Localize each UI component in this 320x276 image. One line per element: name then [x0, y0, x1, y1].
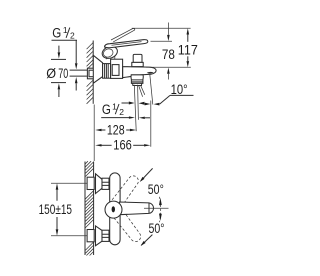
water stream lines — [139, 86, 145, 97]
extension line for 166 (spout tip) — [150, 74, 153, 147]
svg-text:78: 78 — [162, 46, 175, 62]
escutcheon lower (top view) — [96, 226, 103, 246]
svg-text:G: G — [52, 26, 61, 41]
svg-text:2: 2 — [70, 31, 75, 41]
svg-text:G: G — [102, 102, 111, 117]
wall (top view, bottom drawing) — [85, 161, 94, 255]
lever centerline — [144, 207, 169, 209]
swing arc with arrows — [159, 197, 162, 222]
dashed lever swung down — [114, 211, 143, 244]
spout outlet / aerator — [131, 75, 143, 86]
small arrows at spout tip line — [122, 102, 135, 105]
G1/2 leader arrow down — [75, 40, 78, 69]
union fitting upper (top view) — [87, 177, 94, 189]
extension line lower connection — [51, 235, 93, 237]
50 degree label upper — [140, 168, 164, 196]
escutcheon (side view) — [93, 55, 102, 83]
svg-text:70: 70 — [58, 65, 68, 81]
dimension 117 — [178, 28, 198, 67]
union fitting lower (top view) — [87, 230, 94, 242]
wall (side view, top drawing) — [87, 41, 94, 104]
union nut — [103, 64, 111, 79]
dashed lever swung up — [112, 174, 141, 207]
cartridge dome — [105, 201, 122, 218]
diverter knob — [132, 54, 143, 66]
valve body block — [111, 59, 123, 78]
svg-text:2: 2 — [119, 107, 124, 117]
svg-text:50°: 50° — [148, 181, 164, 197]
lever handle (top view) — [120, 202, 154, 215]
spout axis extension lines — [134, 85, 138, 131]
spout arm — [123, 67, 156, 78]
dimension 78 — [162, 23, 175, 80]
10 degree leader — [139, 81, 194, 106]
svg-text:50°: 50° — [149, 220, 165, 236]
escutcheon upper (top view) — [96, 174, 103, 194]
extension line C (body top datum) — [146, 66, 191, 68]
supply pipe — [70, 70, 88, 76]
union fitting in wall — [87, 68, 95, 79]
lever raised (phantom lines) — [111, 28, 135, 41]
G 1/2 label (middle) — [102, 101, 124, 117]
dimension 128 — [95, 122, 136, 138]
wall extension line down — [93, 105, 95, 162]
mixer body capsule (top view) — [110, 173, 120, 245]
extension line A (raised lever height) — [132, 27, 191, 29]
svg-text:150±15: 150±15 — [39, 201, 73, 217]
extension line upper connection — [51, 182, 93, 184]
dimension 166 — [95, 137, 150, 153]
svg-text:10°: 10° — [171, 81, 188, 97]
svg-text:128: 128 — [107, 122, 125, 138]
union nut lower (top view) — [102, 230, 109, 241]
lever dome — [101, 44, 120, 60]
Ø 70 dimension — [46, 46, 68, 97]
lever handle (closed) — [105, 40, 148, 48]
svg-text:166: 166 — [113, 137, 132, 153]
dimension 150 +/- 15 — [39, 183, 73, 236]
G 1/2 label (top left) — [52, 25, 78, 41]
svg-text:Ø: Ø — [46, 65, 56, 81]
opposing arrow up at fitting — [75, 77, 78, 91]
50 degree label lower — [141, 220, 165, 246]
union nut upper (top view) — [102, 178, 109, 189]
G1/2 mid leader arrow right — [101, 116, 150, 119]
extension line B (closed lever top) — [151, 40, 173, 42]
svg-text:117: 117 — [178, 41, 198, 57]
